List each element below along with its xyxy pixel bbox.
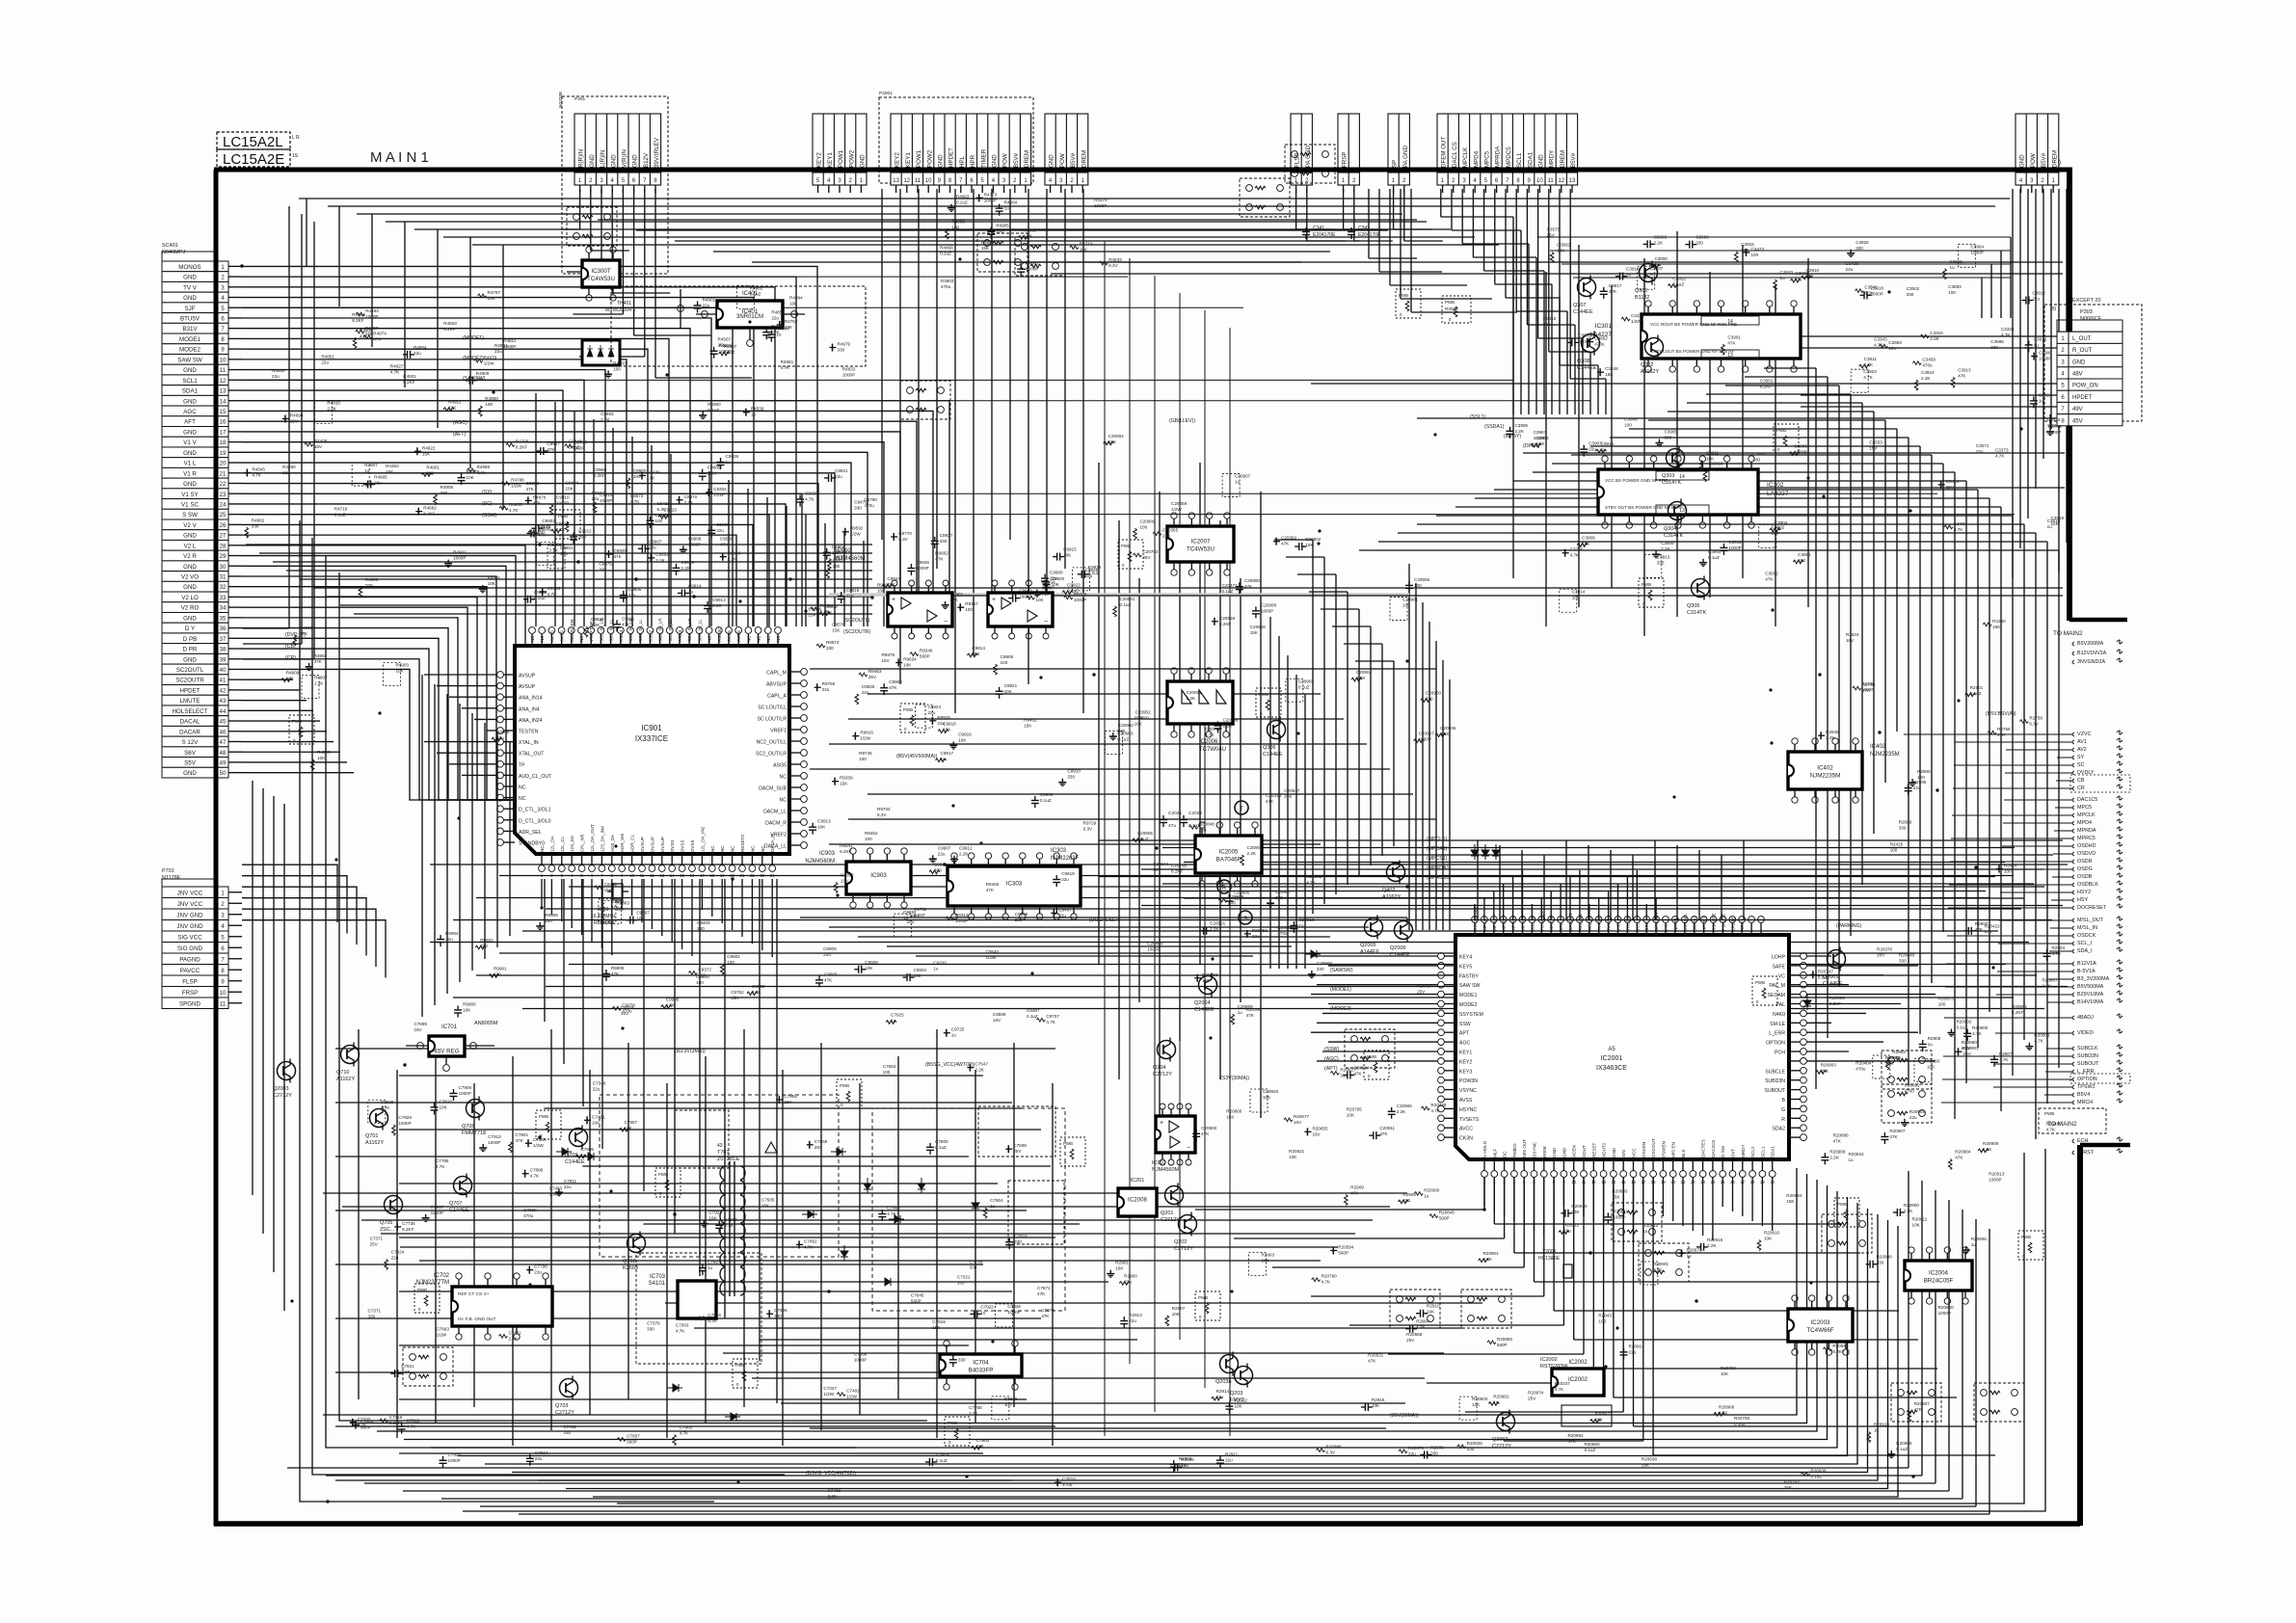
IC IC702 body [452,1287,552,1326]
svg-text:C20904: C20904 [1353,1065,1370,1070]
svg-text:47u: 47u [1168,823,1176,829]
svg-text:R4908: R4908 [496,730,510,734]
IC2001 top pin 26 [1722,923,1723,935]
connector P2001 pin 5 TIMER [976,114,978,185]
svg-text:1000P: 1000P [842,372,855,377]
svg-text:28: 28 [220,544,227,549]
part cluster R45 [987,230,995,232]
svg-text:4.7K: 4.7K [1306,880,1316,885]
svg-text:C3906: C3906 [1794,444,1807,449]
svg-text:C3909: C3909 [1661,541,1674,545]
svg-text:R2915: R2915 [1372,1397,1385,1402]
svg-text:R4902: R4902 [252,518,265,522]
IC2001 bottom pin 13 [1603,1159,1605,1171]
svg-text:NC: NC [757,635,761,642]
svg-text:B5V#: B5V# [1070,152,1077,168]
svg-text:GND: GND [183,367,197,374]
part cluster C36 [1571,338,1573,346]
svg-text:2.2K: 2.2K [601,417,610,422]
svg-text:R9452: R9452 [865,831,878,836]
svg-text:100: 100 [859,757,867,761]
svg-text:22u: 22u [496,735,504,740]
svg-text:V2 RO: V2 RO [181,605,200,612]
svg-text:AV1/3Y: AV1/3Y [1588,917,1592,931]
IC2001 right pin 16 [1789,1107,1801,1109]
svg-text:16V: 16V [414,1027,422,1032]
IC IC2007 body [1167,526,1234,562]
svg-text:10K: 10K [1721,1371,1729,1376]
svg-text:DACTES: DACTES [1701,1139,1706,1157]
svg-text:C7321: C7321 [957,1274,971,1279]
wire bus verticals above IC901 to top pins [535,393,537,626]
IC901 right pin 7 SC2_OUT/LR [789,752,801,754]
part cluster C33 [1531,443,1541,447]
svg-text:(B5V(45V500MA)): (B5V(45V500MA)) [896,754,938,759]
svg-text:13: 13 [1727,353,1733,359]
svg-text:1u: 1u [751,412,757,417]
svg-text:0.1uZ: 0.1uZ [1818,974,1829,979]
svg-text:R4603: R4603 [443,321,457,326]
svg-text:330: 330 [1014,1239,1022,1244]
wire bus below IC303 horizontals [800,917,1407,918]
svg-text:HC13&5E: HC13&5E [1538,1256,1561,1262]
wire bus audio area verticals [1512,231,1514,578]
part cluster C719 [928,1458,930,1466]
connector P701 pin 10 FRSP [162,987,218,998]
svg-text:PWB: PWB [1198,1295,1208,1300]
svg-text:22u: 22u [494,349,502,354]
svg-text:R: R [1222,886,1227,891]
svg-text:19: 19 [220,451,227,457]
PWB dashed box 4 [1256,688,1281,717]
svg-text:C7379: C7379 [647,1321,660,1326]
svg-text:IC303: IC303 [1051,848,1067,854]
svg-text:NC: NC [746,635,751,642]
PWB dashed box 7 [1774,424,1799,453]
svg-text:R20691: R20691 [2012,1004,2028,1009]
svg-text:POW3N: POW3N [1459,1078,1478,1084]
transistor Q2002 C2712Y [1497,1413,1515,1431]
IC901 left pin 14 ADR_SEL [503,830,515,832]
svg-text:C3438: C3438 [1846,261,1859,266]
svg-text:100: 100 [1414,583,1422,588]
svg-text:47K: 47K [613,554,622,559]
part cluster C37 [1638,266,1655,289]
svg-text:GND: GND [632,154,639,168]
IC2001 top pin 20 [1665,923,1667,935]
PWB dashed box 1 [555,510,580,539]
svg-text:100: 100 [1402,1198,1410,1203]
svg-text:X2001: X2001 [1542,1249,1557,1255]
svg-text:IC2002: IC2002 [1540,1357,1558,1363]
test point R circle [1217,880,1231,893]
connector SC401 pin 6 BTU5V [162,313,218,324]
IC IC903 pin 1 [852,854,854,862]
IC901 right pin 15 DACA_LL [789,844,801,846]
border frame left restroke [214,170,219,1526]
svg-text:SECAM: SECAM [1768,993,1785,998]
part cluster R2016 [1564,1210,1566,1217]
border frame right upper [2067,170,2072,621]
svg-text:IC702: IC702 [434,1273,450,1279]
svg-text:A1162Y: A1162Y [336,1077,355,1082]
svg-text:NC: NC [540,635,545,642]
IC IC702 pin 1 [458,1279,460,1287]
svg-text:+: + [992,597,996,603]
svg-text:IX3463CE: IX3463CE [1596,1065,1627,1072]
connector P3002 pin 7 MPDC5 [1501,114,1503,185]
IC901 left pin 8 TP [503,763,515,765]
svg-text:1000P: 1000P [1026,267,1038,272]
svg-text:1000P: 1000P [398,1121,411,1126]
svg-text:C7680: C7680 [523,1208,537,1212]
svg-text:C342: C342 [1358,226,1370,231]
svg-text:PWB: PWB [1259,692,1268,697]
svg-text:R9357: R9357 [965,601,978,606]
svg-text:LAUTE: LAUTE [1730,917,1735,931]
part cluster C928 [1073,568,1090,591]
svg-text:GND: GND [183,584,197,591]
svg-text:C144EE: C144EE [449,1208,469,1213]
svg-text:DREM: DREM [1081,150,1087,168]
svg-text:10: 10 [1536,178,1543,184]
svg-text:17: 17 [700,873,705,878]
svg-text:M-RST: M-RST [2077,1150,2095,1156]
svg-text:4.7K: 4.7K [1483,1257,1493,1262]
IC IC303 body [948,866,1081,906]
svg-text:NC: NC [780,775,788,781]
svg-text:25V: 25V [1963,1051,1972,1056]
svg-text:C9873: C9873 [630,493,644,498]
svg-text:47K: 47K [986,888,995,892]
part cluster C919 [1053,879,1060,881]
wire bus left of IC901 verticals [421,675,423,1017]
part cluster C314 [1560,589,1577,612]
diode D707 [889,1215,904,1223]
part cluster R27 [1165,1316,1169,1326]
IC901 bottom pin 14 [671,854,673,865]
svg-text:47K: 47K [1201,1131,1210,1136]
svg-text:R2424: R2424 [2004,864,2017,868]
svg-text:47K: 47K [1281,542,1290,546]
svg-text:10K: 10K [1234,1404,1242,1409]
svg-text:C9678: C9678 [622,1002,635,1007]
test point S circle [1239,911,1252,924]
part cluster C93 [1012,595,1014,602]
svg-text:C7919: C7919 [932,1319,946,1324]
part cluster R44 [308,663,310,667]
svg-text:C341: C341 [1313,226,1324,231]
svg-text:C7371: C7371 [368,1308,382,1313]
wire bus top-left long horizontals [299,198,2010,200]
IC2001 left pin 12 KEY3 [1444,1070,1455,1072]
svg-text:C3918: C3918 [2034,336,2047,341]
svg-text:10K: 10K [817,825,826,830]
svg-text:(SSW): (SSW) [1324,1047,1340,1052]
part cluster R46 [434,494,438,505]
svg-text:MPC5: MPC5 [2077,805,2092,811]
IC901 bottom pin 12 [651,854,653,865]
svg-text:25V: 25V [718,343,727,348]
IC2001 top pin 17 [1636,923,1638,935]
svg-text:0.1uZ: 0.1uZ [956,200,968,205]
svg-text:C9492: C9492 [655,552,669,557]
IC IC301 pin 1 [1647,306,1649,314]
svg-text:PA GND: PA GND [1402,146,1409,168]
transistor Q306 C144EE [1268,721,1286,739]
svg-text:IC2002: IC2002 [1568,1360,1588,1366]
svg-text:R20900: R20900 [1972,1025,1989,1030]
svg-text:R4567: R4567 [718,337,732,342]
svg-text:330: 330 [854,506,862,511]
IC2001 bottom pin 9 [1562,1159,1564,1171]
connector P3002 pin 5 MPC5 [1480,114,1482,185]
svg-text:1u: 1u [903,916,909,920]
part cluster C34 [1958,244,1975,267]
off-page signal MPD4 [2072,821,2074,825]
IC IC402 body [1788,752,1862,789]
svg-text:470u: 470u [1277,931,1288,936]
svg-text:ASG4: ASG4 [678,629,682,642]
off-page signal SDA_I [2072,949,2074,953]
svg-text:29: 29 [220,554,227,560]
IC2001 right pin 11 [1789,1060,1801,1062]
svg-text:4.7K: 4.7K [666,1003,676,1008]
svg-text:0.1uZ: 0.1uZ [1672,282,1684,287]
svg-text:25V: 25V [370,1242,379,1247]
svg-text:48V: 48V [2072,372,2083,378]
IC901 left pin 12 D_CTL_3/OL1 [503,808,515,810]
svg-text:SAFE: SAFE [1772,964,1785,970]
svg-text:22u: 22u [628,593,636,598]
transistor Q2004 C144EE [1199,976,1217,995]
svg-text:C3903: C3903 [1654,234,1668,239]
IC2001 top pin 27 [1731,923,1733,935]
part cluster C920 [796,498,804,500]
capacitor C342 [1348,231,1355,233]
svg-text:C9919: C9919 [1061,871,1075,876]
connector P2001 pin 1 DREM [1019,114,1021,185]
connector P701 pin 1 JNV VCC [162,887,218,898]
svg-text:15K: 15K [1250,630,1259,635]
svg-text:16V: 16V [1846,638,1855,643]
IC2001 top pin 30 [1760,923,1762,935]
IC901 left pin 3 ANA_IN4 [503,707,515,709]
svg-text:R9756: R9756 [822,681,836,686]
svg-text:330: 330 [1695,241,1703,246]
IC2001 bottom pin 19 [1662,1159,1664,1171]
svg-text:R2906: R2906 [1913,780,1927,785]
svg-text:POW2: POW2 [926,149,933,168]
svg-text:16V: 16V [1869,445,1878,450]
svg-text:R20903: R20903 [1821,1062,1837,1067]
IC IC303 pin 7 [1055,859,1057,866]
svg-text:22u: 22u [1629,1349,1637,1354]
svg-text:R2634: R2634 [1846,632,1859,637]
IC IC2007 pin 2 [1190,519,1192,526]
svg-text:C3502: C3502 [1907,286,1920,291]
svg-text:C20902: C20902 [1118,723,1135,728]
svg-text:R20906: R20906 [1971,1237,1988,1241]
svg-text:R9901: R9901 [494,966,507,971]
op-amp IC902b pin 2 [1028,586,1029,593]
IC IC2003 pin 1 [1794,1301,1796,1309]
wire bus left-risers to top bus [306,199,307,266]
svg-text:C3967: C3967 [1534,430,1547,435]
svg-text:10K: 10K [1347,1113,1355,1118]
svg-text:23: 23 [220,492,227,498]
svg-text:S: S [1243,917,1247,922]
svg-text:(SC): (SC) [482,501,493,507]
svg-text:MPLX: MPLX [1482,918,1487,931]
svg-text:C9926: C9926 [591,617,604,622]
svg-text:18: 18 [220,440,227,446]
connector P306 pin 1 DREM [2047,114,2049,185]
svg-text:R2911: R2911 [1225,1452,1239,1457]
svg-text:C9909: C9909 [823,946,837,951]
wire bus IC2001 bottom drops [1483,1177,1485,1210]
svg-text:C20906: C20906 [1440,726,1456,731]
svg-text:330: 330 [970,1264,977,1269]
svg-text:DREM: DREM [2051,150,2058,168]
svg-text:C3920: C3920 [1780,270,1794,275]
svg-text:R4708: R4708 [516,439,529,444]
svg-text:GND: GND [610,154,617,168]
IC IC2007 pin 4 [1226,519,1228,526]
svg-text:R9541: R9541 [840,843,853,848]
svg-text:ST2: ST2 [1559,922,1563,931]
svg-text:C9900: C9900 [633,468,647,473]
svg-text:14: 14 [220,399,227,405]
svg-text:13: 13 [1569,178,1576,184]
svg-text:OPTION: OPTION [1766,1041,1785,1047]
connector P3002 pin 13 B5V# [1565,114,1567,185]
wire bus bottom-right nested corners [323,1168,1797,1415]
svg-text:R20832: R20832 [1905,1082,1921,1087]
svg-text:C144EE: C144EE [1573,309,1593,315]
IC2001 right pin 2 [1789,974,1801,976]
IC901 bottom pin 10 [631,854,633,865]
svg-text:POW: POW [1059,153,1066,168]
svg-text:1000P: 1000P [503,344,516,349]
svg-text:DREM: DREM [1560,150,1566,168]
IC901 bottom pin 13 [661,854,663,865]
svg-text:SCL2: SCL2 [1750,1146,1755,1157]
svg-text:SY: SY [2077,755,2085,760]
IC703 dashed enclosure [636,1253,761,1364]
svg-text:R20901: R20901 [1963,1046,1980,1051]
svg-text:1/2W: 1/2W [850,532,861,537]
part cluster C98 [682,545,684,549]
svg-text:100: 100 [1181,1463,1188,1468]
svg-text:S 12V: S 12V [182,739,200,746]
IC IC702 pin 4 [545,1279,547,1287]
part cluster R26 [1905,787,1912,789]
wire bus IC2001 top bundle [1474,904,1476,919]
part cluster C727 [699,1267,707,1269]
svg-text:2.2K: 2.2K [1187,696,1196,701]
IC901 top pin 11 [639,634,641,646]
svg-text:1u: 1u [1848,1157,1854,1162]
svg-text:2.2K: 2.2K [1210,927,1219,932]
svg-text:Q2004: Q2004 [1194,1000,1211,1006]
svg-text:470u: 470u [622,1008,632,1013]
svg-text:FRSP: FRSP [1342,151,1348,168]
svg-text:OSDVD: OSDVD [2077,851,2096,857]
svg-text:12: 12 [1558,178,1564,184]
connector P701 pin 7 PAGND [162,953,218,965]
svg-text:330: 330 [441,491,448,495]
IC901 top pin 20 [728,634,730,646]
svg-text:C9725: C9725 [951,1027,965,1032]
IC IC2006 pin 1 [1173,674,1175,681]
svg-text:(MPCLK): (MPCLK) [1427,837,1448,842]
svg-text:10K: 10K [1557,249,1565,253]
svg-text:C9916: C9916 [846,588,860,593]
svg-text:12L_DA_IN2: 12L_DA_IN2 [700,826,705,852]
svg-text:CAPL_A: CAPL_A [767,694,787,700]
IC901 bottom pin 21 [741,854,743,865]
svg-text:SAW SW: SAW SW [177,357,202,363]
svg-text:11: 11 [220,1001,227,1007]
IC2001 bottom pin 14 [1613,1159,1615,1171]
svg-text:R9716: R9716 [1035,592,1049,597]
svg-text:C20900: C20900 [1201,1126,1217,1131]
svg-text:C7547: C7547 [974,1062,988,1067]
svg-text:10K: 10K [1035,598,1044,602]
transistor Q307 C144EE [1578,279,1596,297]
wire bus IC901 left pin links [424,674,497,676]
svg-text:P401: P401 [574,96,586,102]
svg-text:0.1uZ: 0.1uZ [724,350,735,355]
svg-text:LOHP: LOHP [1772,955,1786,961]
svg-text:BA7046F: BA7046F [1216,857,1241,864]
svg-text:13: 13 [659,873,664,878]
svg-text:4.7K: 4.7K [1555,1387,1564,1392]
part cluster C914 [681,589,682,597]
IC IC303 pin 1 [953,859,955,866]
part cluster R42 [1017,268,1025,270]
svg-text:(SC2OUTL): (SC2OUTL) [843,618,870,624]
svg-text:VCC: VCC [1635,921,1640,931]
power supply dashed enclosure 2 [978,1106,1055,1157]
svg-text:1u: 1u [707,1265,713,1270]
svg-text:330: 330 [1899,826,1907,831]
svg-text:ASG0C: ASG0C [717,626,722,642]
svg-text:470u: 470u [1905,1088,1915,1093]
connector SC401 pin 12 SCL1 [162,375,218,386]
part cluster C76 [575,1155,586,1158]
op-amp IC902a pin 0 [894,586,895,593]
svg-text:C7928: C7928 [381,1100,394,1104]
svg-text:B5V4: B5V4 [2077,1092,2090,1098]
svg-text:10K: 10K [841,879,849,884]
svg-text:B5V#: B5V# [1570,152,1577,168]
svg-text:C9916: C9916 [958,732,972,736]
svg-text:OSCEN: OSCEN [1642,1142,1646,1157]
svg-text:AVSS: AVSS [736,630,741,642]
off-page signal B12V1A [2072,962,2074,966]
svg-text:330: 330 [563,1430,571,1435]
svg-text:R4907: R4907 [314,676,328,680]
svg-text:NC: NC [750,845,755,852]
svg-text:C7461: C7461 [592,1114,605,1119]
off-page OPTION dashed box [2070,1074,2130,1083]
part cluster C205 [1133,838,1143,842]
svg-text:SC2OUTL: SC2OUTL [176,667,204,674]
test point T circle [1235,801,1248,814]
svg-text:0.1uZ: 0.1uZ [1734,1422,1746,1426]
